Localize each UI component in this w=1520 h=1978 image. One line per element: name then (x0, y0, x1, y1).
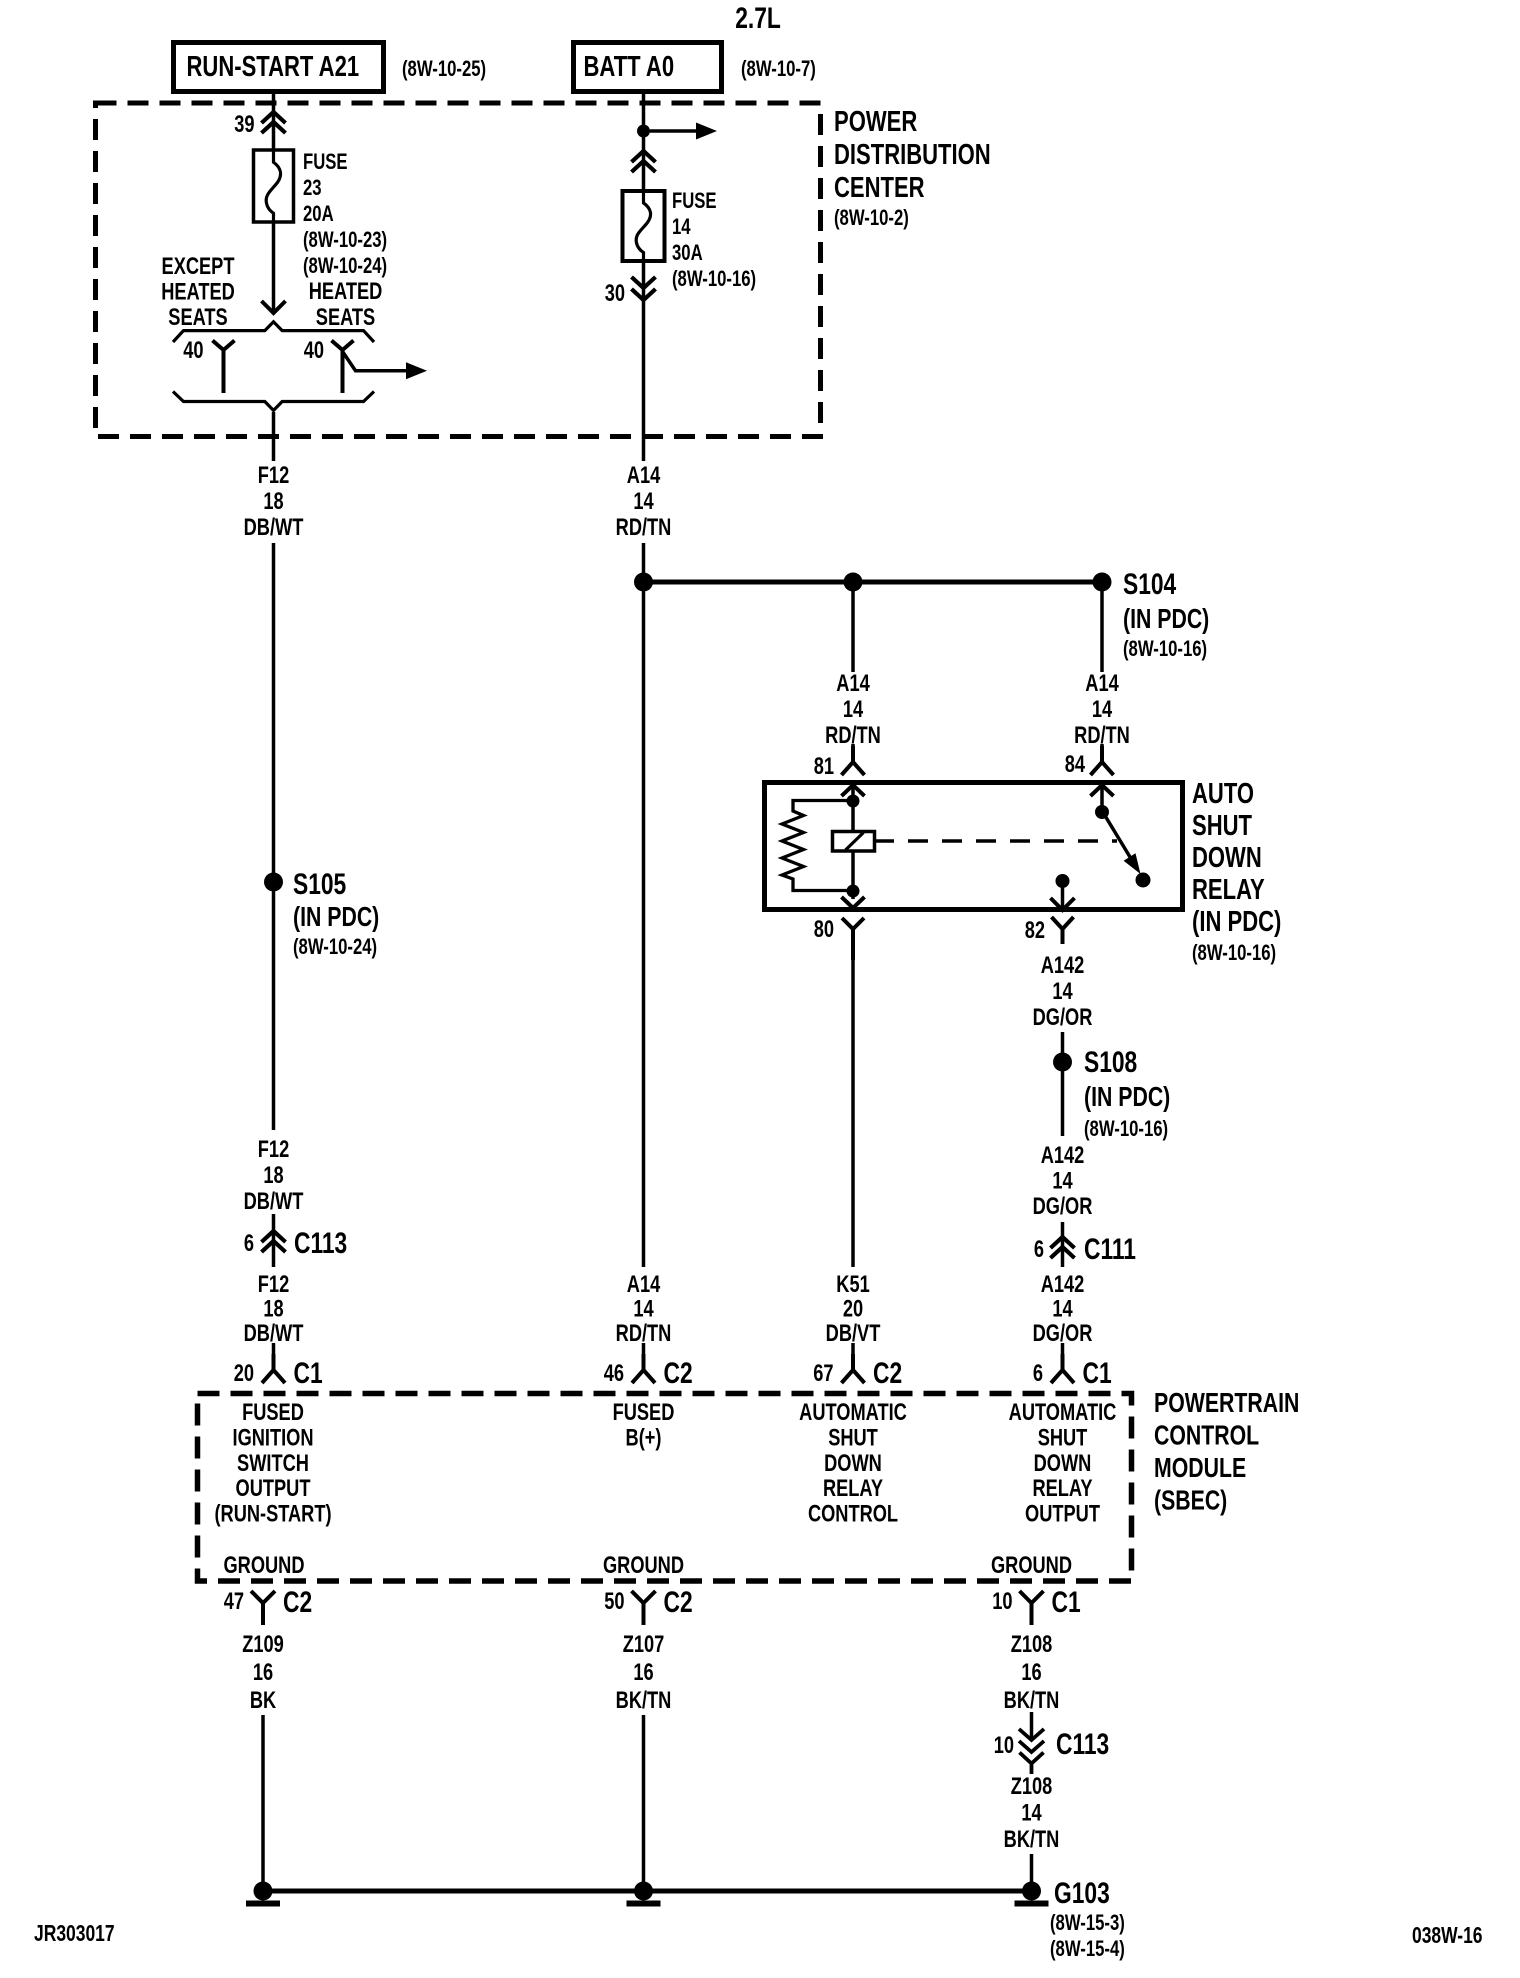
svg-text:038W-16: 038W-16 (1412, 1924, 1483, 1949)
svg-text:Z108: Z108 (1011, 1773, 1053, 1800)
svg-text:OUTPUT: OUTPUT (236, 1475, 311, 1502)
svg-text:40: 40 (304, 337, 324, 364)
svg-text:10: 10 (994, 1732, 1014, 1759)
svg-text:AUTO: AUTO (1192, 778, 1254, 810)
svg-text:DB/WT: DB/WT (244, 1188, 304, 1215)
svg-text:30A: 30A (672, 241, 703, 266)
svg-text:CONTROL: CONTROL (1154, 1420, 1259, 1452)
svg-text:C113: C113 (1056, 1727, 1109, 1761)
svg-text:DOWN: DOWN (1034, 1449, 1092, 1476)
svg-text:50: 50 (604, 1588, 624, 1615)
svg-text:DB/WT: DB/WT (244, 1320, 304, 1347)
svg-text:S104: S104 (1123, 567, 1176, 601)
svg-text:80: 80 (814, 916, 834, 943)
svg-text:RD/TN: RD/TN (616, 514, 672, 541)
svg-text:C1: C1 (294, 1356, 323, 1390)
svg-text:(IN PDC): (IN PDC) (293, 901, 379, 933)
svg-text:RELAY: RELAY (1192, 874, 1265, 906)
svg-text:2.7L: 2.7L (735, 1, 781, 35)
svg-text:14: 14 (1052, 1295, 1072, 1322)
svg-text:DG/OR: DG/OR (1033, 1004, 1093, 1031)
svg-text:20: 20 (843, 1295, 863, 1322)
svg-text:S105: S105 (293, 867, 346, 901)
svg-text:MODULE: MODULE (1154, 1452, 1246, 1484)
svg-text:OUTPUT: OUTPUT (1025, 1500, 1100, 1527)
svg-text:(8W-10-7): (8W-10-7) (741, 57, 816, 82)
svg-text:S108: S108 (1084, 1045, 1137, 1079)
svg-text:DB/VT: DB/VT (826, 1320, 881, 1347)
svg-text:C2: C2 (283, 1585, 312, 1619)
svg-text:47: 47 (224, 1588, 244, 1615)
svg-text:BK/TN: BK/TN (1004, 1826, 1060, 1853)
svg-text:SHUT: SHUT (1192, 810, 1252, 842)
svg-text:6: 6 (244, 1230, 254, 1257)
svg-text:GROUND: GROUND (991, 1552, 1072, 1579)
svg-text:14: 14 (1021, 1799, 1041, 1826)
svg-text:SHUT: SHUT (828, 1424, 878, 1451)
svg-text:K51: K51 (836, 1271, 870, 1298)
svg-text:10: 10 (992, 1588, 1012, 1615)
svg-text:18: 18 (263, 488, 283, 515)
svg-text:RUN-START A21: RUN-START A21 (187, 51, 360, 83)
svg-text:16: 16 (1021, 1659, 1041, 1686)
svg-text:46: 46 (604, 1360, 624, 1387)
svg-text:AUTOMATIC: AUTOMATIC (799, 1399, 907, 1426)
svg-text:18: 18 (263, 1162, 283, 1189)
svg-text:G103: G103 (1054, 1876, 1110, 1910)
svg-text:6: 6 (1034, 1236, 1044, 1263)
svg-text:CENTER: CENTER (834, 172, 925, 204)
svg-text:GROUND: GROUND (603, 1552, 684, 1579)
svg-text:14: 14 (1092, 696, 1112, 723)
svg-text:20A: 20A (303, 202, 334, 227)
svg-text:(8W-10-16): (8W-10-16) (1192, 941, 1276, 966)
svg-text:JR303017: JR303017 (34, 1922, 115, 1947)
svg-text:POWER: POWER (834, 106, 918, 138)
svg-text:(8W-15-3): (8W-15-3) (1050, 1911, 1125, 1936)
svg-text:30: 30 (605, 280, 625, 307)
svg-text:BATT A0: BATT A0 (584, 51, 675, 83)
svg-text:RD/TN: RD/TN (616, 1320, 672, 1347)
svg-text:POWERTRAIN: POWERTRAIN (1154, 1387, 1299, 1419)
svg-text:(IN PDC): (IN PDC) (1084, 1081, 1170, 1113)
svg-text:HEATED: HEATED (161, 278, 235, 305)
svg-text:Z107: Z107 (623, 1631, 665, 1658)
svg-text:BK: BK (250, 1687, 277, 1714)
svg-text:14: 14 (672, 215, 691, 240)
svg-text:(8W-10-16): (8W-10-16) (1084, 1117, 1168, 1142)
svg-text:81: 81 (814, 753, 834, 780)
svg-text:RELAY: RELAY (1032, 1475, 1092, 1502)
svg-text:14: 14 (843, 696, 863, 723)
svg-text:(8W-10-16): (8W-10-16) (1123, 637, 1207, 662)
svg-text:EXCEPT: EXCEPT (162, 253, 235, 280)
svg-text:A14: A14 (627, 462, 661, 489)
svg-text:F12: F12 (258, 1271, 289, 1298)
svg-text:(IN PDC): (IN PDC) (1123, 603, 1209, 635)
svg-text:(8W-10-2): (8W-10-2) (834, 206, 909, 231)
svg-text:18: 18 (263, 1295, 283, 1322)
svg-text:84: 84 (1065, 751, 1085, 778)
svg-text:16: 16 (253, 1659, 273, 1686)
svg-text:(SBEC): (SBEC) (1154, 1485, 1227, 1517)
svg-text:Z109: Z109 (242, 1631, 284, 1658)
svg-text:DOWN: DOWN (1192, 842, 1262, 874)
svg-text:A142: A142 (1041, 1271, 1085, 1298)
svg-text:DG/OR: DG/OR (1033, 1320, 1093, 1347)
svg-text:DOWN: DOWN (824, 1449, 882, 1476)
svg-text:DB/WT: DB/WT (244, 514, 304, 541)
svg-text:A14: A14 (627, 1271, 661, 1298)
svg-text:SHUT: SHUT (1038, 1424, 1088, 1451)
svg-text:DISTRIBUTION: DISTRIBUTION (834, 139, 991, 171)
svg-text:RELAY: RELAY (823, 1475, 883, 1502)
svg-text:14: 14 (1052, 1167, 1072, 1194)
svg-text:C2: C2 (664, 1356, 693, 1390)
svg-text:FUSE: FUSE (303, 150, 348, 175)
svg-text:DG/OR: DG/OR (1033, 1193, 1093, 1220)
svg-text:C2: C2 (664, 1585, 693, 1619)
svg-text:SEATS: SEATS (316, 304, 375, 331)
svg-text:40: 40 (183, 337, 203, 364)
svg-text:(8W-10-24): (8W-10-24) (293, 935, 377, 960)
svg-text:IGNITION: IGNITION (233, 1424, 314, 1451)
svg-text:AUTOMATIC: AUTOMATIC (1009, 1399, 1117, 1426)
svg-text:39: 39 (234, 111, 254, 138)
svg-text:(8W-10-25): (8W-10-25) (402, 57, 486, 82)
svg-text:14: 14 (633, 488, 653, 515)
svg-text:A14: A14 (1085, 670, 1119, 697)
svg-text:GROUND: GROUND (224, 1552, 305, 1579)
svg-text:(8W-10-24): (8W-10-24) (303, 254, 387, 279)
svg-text:(RUN-START): (RUN-START) (214, 1500, 331, 1527)
svg-text:SEATS: SEATS (168, 304, 227, 331)
svg-text:CONTROL: CONTROL (808, 1500, 898, 1527)
svg-text:BK/TN: BK/TN (1004, 1687, 1060, 1714)
svg-text:A14: A14 (836, 670, 870, 697)
svg-text:C1: C1 (1083, 1356, 1112, 1390)
svg-text:(8W-10-23): (8W-10-23) (303, 228, 387, 253)
svg-text:A142: A142 (1041, 1142, 1085, 1169)
svg-text:A142: A142 (1041, 952, 1085, 979)
svg-text:F12: F12 (258, 1136, 289, 1163)
svg-text:F12: F12 (258, 462, 289, 489)
svg-text:FUSED: FUSED (242, 1399, 304, 1426)
svg-text:B(+): B(+) (626, 1424, 662, 1451)
svg-text:C2: C2 (873, 1356, 902, 1390)
svg-text:(IN PDC): (IN PDC) (1192, 906, 1281, 938)
svg-text:14: 14 (1052, 978, 1072, 1005)
svg-text:16: 16 (633, 1659, 653, 1686)
svg-text:C1: C1 (1052, 1585, 1081, 1619)
svg-text:14: 14 (633, 1295, 653, 1322)
svg-text:Z108: Z108 (1011, 1631, 1053, 1658)
svg-text:82: 82 (1025, 917, 1045, 944)
svg-text:FUSE: FUSE (672, 189, 717, 214)
svg-text:(8W-15-4): (8W-15-4) (1050, 1937, 1125, 1962)
svg-text:SWITCH: SWITCH (237, 1449, 309, 1476)
svg-text:HEATED: HEATED (309, 278, 383, 305)
svg-text:67: 67 (813, 1360, 833, 1387)
svg-text:20: 20 (234, 1360, 254, 1387)
svg-text:C113: C113 (294, 1226, 347, 1260)
svg-text:(8W-10-16): (8W-10-16) (672, 267, 756, 292)
svg-text:FUSED: FUSED (613, 1399, 675, 1426)
svg-text:C111: C111 (1084, 1232, 1136, 1266)
svg-text:BK/TN: BK/TN (616, 1687, 672, 1714)
svg-text:6: 6 (1033, 1360, 1043, 1387)
svg-text:23: 23 (303, 176, 322, 201)
